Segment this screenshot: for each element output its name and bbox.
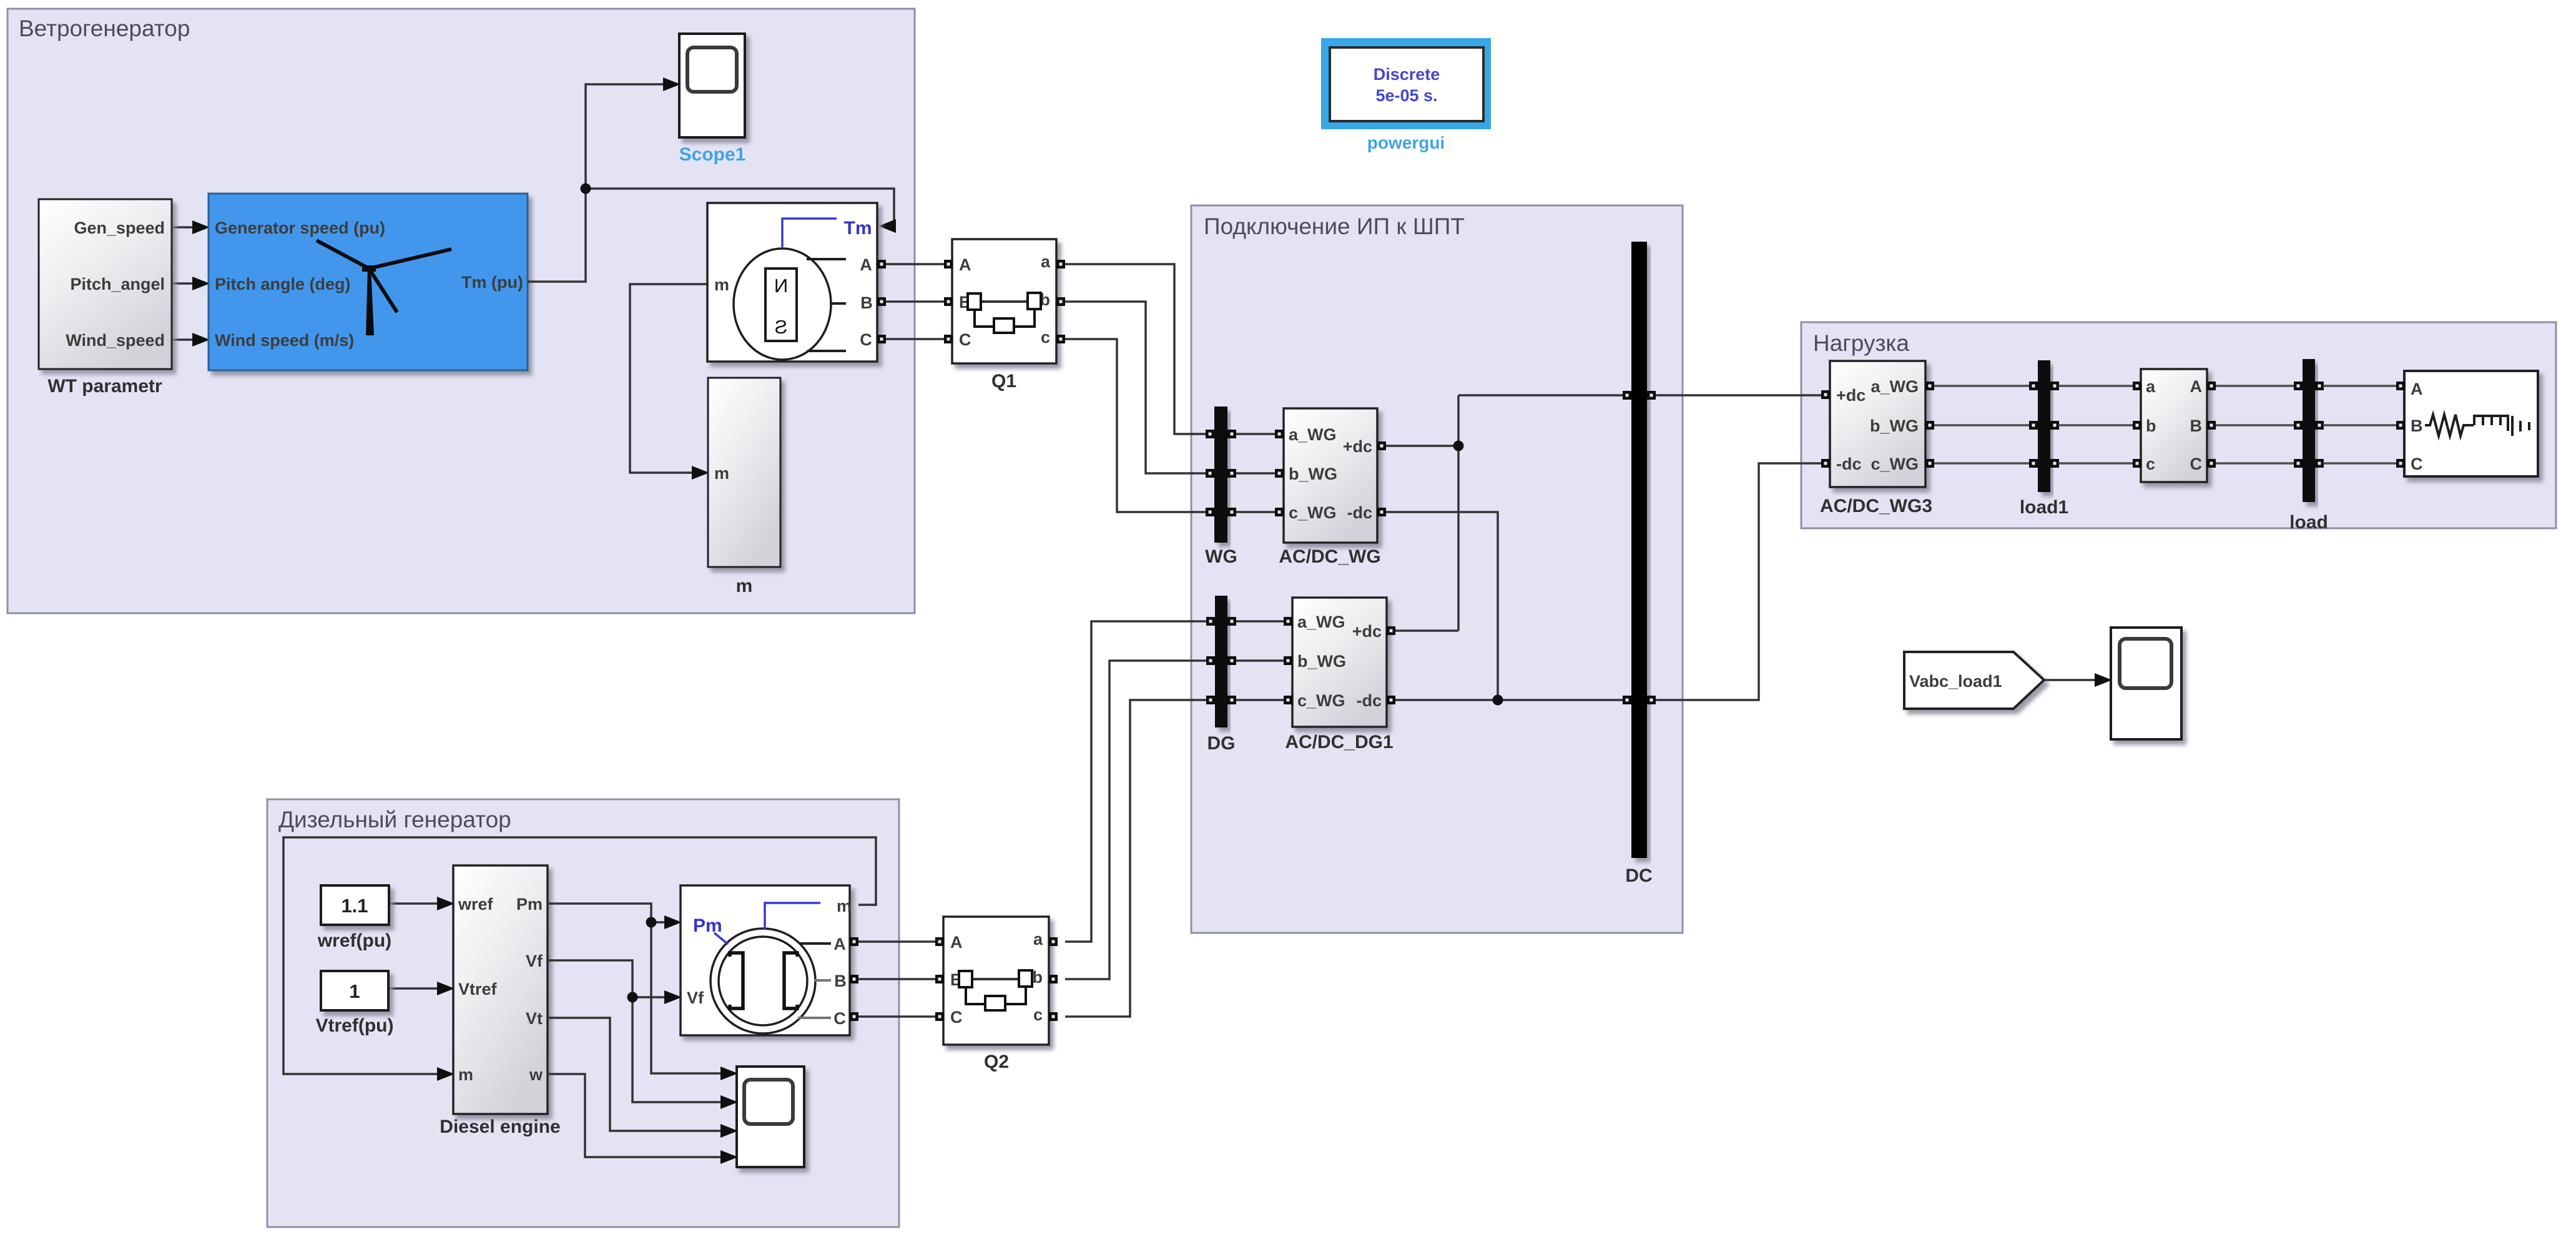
svg-text:AC/DC_DG1: AC/DC_DG1 [1285,732,1393,752]
svg-text:A: A [833,935,846,954]
wire WG bus c to AC/DC_WG [1236,511,1276,513]
bus WG [1205,407,1237,567]
area box Подключение ИП к ШПТ [1191,205,1683,933]
wire +dc AC/DC_DG1 to node [1395,629,1458,632]
svg-text:Q2: Q2 [984,1052,1009,1072]
wire Vf to machine and scope [548,960,738,1109]
svg-text:+dc: +dc [1836,386,1866,405]
svg-text:a_WG: a_WG [1871,377,1919,396]
wire Q2 a to DG bus [1065,621,1207,942]
wire DC bus to -dc AC/DC_WG3 [1656,463,1822,700]
svg-text:A: A [959,255,971,274]
bus DC [1623,242,1656,886]
svg-text:wref: wref [458,895,494,914]
bus DG [1206,596,1236,754]
wire load bus B to RLC [2323,424,2396,426]
wire abc B to load bus [2216,424,2294,426]
block RLC load [2396,371,2538,476]
svg-text:Ƨ: Ƨ [775,316,788,338]
wire PMSM m to m-block [630,284,709,480]
svg-text:A: A [2411,380,2423,398]
wire WT Pitch_angel to turbine [172,277,210,290]
svg-text:AC/DC_WG3: AC/DC_WG3 [1820,496,1932,516]
block synchronous machine [681,885,858,1035]
wire DC bus to +dc AC/DC_WG3 [1656,394,1822,397]
svg-text:DG: DG [1207,733,1236,754]
svg-text:B: B [860,293,873,312]
svg-text:a_WG: a_WG [1297,613,1345,631]
svg-text:load: load [2289,512,2328,533]
svg-text:Tm (pu): Tm (pu) [461,273,523,292]
svg-text:C: C [959,330,971,349]
wire sync A to Q2 [858,940,945,943]
area box Нагрузка [1801,322,2556,528]
svg-text:C: C [833,1009,846,1028]
svg-text:Vabc_load1: Vabc_load1 [1909,672,2002,691]
svg-text:-dc: -dc [1357,691,1382,710]
svg-text:A: A [950,933,963,952]
wire abc C to load bus [2216,462,2294,465]
block Q2 breaker [935,917,1058,1072]
svg-text:m: m [714,275,729,294]
svg-text:c_WG: c_WG [1289,503,1337,522]
svg-text:C: C [860,330,872,349]
svg-text:Pitch angle (deg): Pitch angle (deg) [215,275,351,293]
svg-text:Pitch_angel: Pitch_angel [70,275,165,293]
wire WG bus b to AC/DC_WG [1236,472,1276,475]
svg-text:load1: load1 [2020,497,2068,518]
svg-text:+dc: +dc [1352,622,1382,641]
icon wind turbine [317,240,451,335]
svg-text:AC/DC_WG: AC/DC_WG [1279,546,1380,567]
svg-text:Нагрузка: Нагрузка [1813,330,1909,356]
svg-text:Scope1: Scope1 [679,144,746,165]
svg-text:Vtref(pu): Vtref(pu) [316,1015,394,1036]
svg-text:Подключение ИП к ШПТ: Подключение ИП к ШПТ [1204,214,1465,239]
From tag Vabc_load1 [1904,652,2044,709]
block PMSM machine [707,203,886,362]
bus load [2289,359,2328,533]
block WT parametr [39,199,172,397]
wire Q1 a to WG bus [1065,264,1209,434]
wire WT Gen_speed to turbine [172,220,210,234]
wire WG bus a to AC/DC_WG [1236,433,1276,435]
svg-text:b_WG: b_WG [1870,416,1919,435]
svg-text:C: C [2190,455,2203,473]
svg-text:b: b [2146,416,2156,435]
svg-text:m: m [736,576,753,596]
wire PMSM B to Q1 B [886,300,945,303]
svg-text:a: a [1033,930,1043,949]
svg-text:m: m [837,897,852,915]
svg-text:Ветрогенератор: Ветрогенератор [19,16,190,41]
svg-text:a: a [1041,252,1051,271]
svg-text:C: C [950,1008,963,1027]
wire wref const to Diesel engine [389,897,455,910]
wire Pm to machine and scope [548,904,738,1080]
wire Vtref const to Diesel engine [388,982,455,995]
block AC/DC_WG [1275,408,1386,567]
svg-text:w: w [529,1065,543,1084]
svg-text:И: И [774,275,788,297]
svg-text:A: A [860,255,872,274]
svg-text:Vf: Vf [526,952,543,970]
svg-text:Vf: Vf [687,988,704,1007]
bus load1 [2020,360,2068,518]
wire m feedback loop [283,837,876,1081]
svg-text:c: c [1033,1005,1043,1024]
svg-text:wref(pu): wref(pu) [317,930,391,951]
wire DG bus b to AC/DC_DG1 [1236,659,1284,662]
block AC/DC_WG3 [1820,361,1934,516]
svg-text:Vt: Vt [526,1009,543,1028]
svg-text:A: A [2190,377,2203,396]
svg-text:WG: WG [1205,546,1237,567]
wire AC/DC_WG3 a to load1 [1934,385,2030,387]
wire load1 a to abc block [2058,385,2133,387]
svg-text:Pm: Pm [693,915,722,936]
block constant Vtref 1 [316,971,394,1036]
svg-text:Tm: Tm [844,218,872,239]
svg-text:c: c [1041,328,1050,347]
wire +dc node to DC bus [1386,395,1623,631]
wire -dc AC/DC_WG down [1386,512,1498,700]
svg-text:Q1: Q1 [991,371,1016,392]
svg-text:5e-05 s.: 5e-05 s. [1375,86,1437,105]
svg-text:B: B [834,972,847,990]
svg-text:B: B [2190,416,2203,435]
svg-text:Wind speed (m/s): Wind speed (m/s) [215,331,354,350]
block m (measurement demux) [708,378,780,596]
svg-text:Pm: Pm [516,895,543,914]
svg-text:Vtref: Vtref [458,980,498,998]
svg-text:Gen_speed: Gen_speed [74,219,165,237]
block diesel scope [737,1067,804,1167]
svg-text:b: b [1033,968,1043,987]
wire DG bus c to AC/DC_DG1 [1236,699,1284,701]
wire AC/DC_WG3 b to load1 [1934,424,2030,426]
svg-text:c_WG: c_WG [1871,455,1919,473]
svg-text:m: m [458,1065,473,1084]
wire DG bus a to AC/DC_DG1 [1236,620,1284,623]
block abc-ABC measurement [2133,369,2216,482]
svg-text:m: m [714,464,729,483]
svg-text:c: c [2146,455,2155,473]
wire sync B to Q2 [858,978,945,980]
svg-text:1.1: 1.1 [341,895,368,917]
wire load bus A to RLC [2323,385,2396,387]
wire load1 b to abc block [2058,424,2133,426]
svg-text:c_WG: c_WG [1297,691,1345,710]
svg-text:-dc: -dc [1347,503,1373,522]
wire PMSM A to Q1 A [886,263,945,265]
wire Vt to scope [548,1018,738,1138]
svg-text:powergui: powergui [1367,133,1445,152]
svg-text:Discrete: Discrete [1374,65,1440,84]
block constant wref 1.1 [317,885,391,951]
wire w to scope [548,1074,738,1164]
wire PMSM C to Q1 C [886,338,945,340]
wire -dc node to DC bus [1395,695,1623,706]
wire Q2 b to DG bus [1065,661,1207,979]
block Scope2 [2111,628,2181,739]
svg-text:Diesel engine: Diesel engine [440,1116,560,1137]
svg-text:1: 1 [349,980,360,1002]
block Q1 breaker [944,239,1065,392]
area box Дизельный генератор [267,799,899,1227]
svg-text:-dc: -dc [1836,455,1862,473]
block Scope1 [679,34,746,165]
svg-text:+dc: +dc [1343,437,1372,456]
block AC/DC_DG1 [1284,598,1395,752]
svg-text:a_WG: a_WG [1289,425,1337,444]
wire abc A to load bus [2216,385,2294,387]
block Diesel engine [440,865,560,1137]
wire load bus C to RLC [2323,462,2396,465]
wire sync C to Q2 [858,1015,945,1018]
wire Vabc_load1 to Scope2 [2044,673,2112,687]
block powergui [1322,39,1490,152]
svg-text:b_WG: b_WG [1297,652,1346,671]
wire AC/DC_WG3 c to load1 [1934,462,2030,465]
block Wind Turbine (blue) [209,194,528,370]
wire load1 c to abc block [2058,462,2133,465]
svg-text:C: C [2411,455,2423,473]
wire Tm(pu) to Scope1 and Tm feedback [528,77,896,282]
wire Q2 c to DG bus [1065,700,1207,1017]
svg-text:WT parametr: WT parametr [47,376,162,397]
wire WT Wind_speed to turbine [172,333,210,347]
area box Ветрогенератор [7,9,915,613]
svg-text:B: B [2411,416,2423,435]
svg-text:a: a [2146,377,2156,396]
svg-text:DC: DC [1625,865,1652,886]
svg-text:Дизельный генератор: Дизельный генератор [278,807,511,832]
svg-text:b_WG: b_WG [1289,465,1337,483]
svg-text:Generator speed (pu): Generator speed (pu) [215,219,385,237]
wire Q1 c to WG bus [1065,339,1209,512]
svg-text:Wind_speed: Wind_speed [66,331,165,350]
wire Q1 b to WG bus [1065,302,1209,473]
